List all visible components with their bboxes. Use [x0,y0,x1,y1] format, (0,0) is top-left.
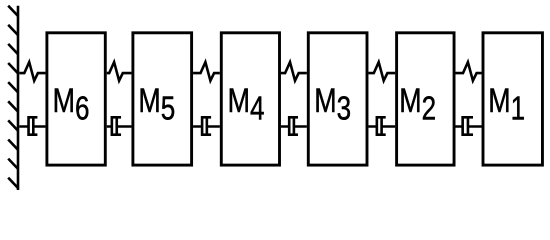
spring k6 (wall to M6) [19,62,45,81]
label M1 [488,82,525,127]
label M6 [53,82,90,127]
damper c6 (wall to M6) [19,116,45,135]
mass M1 box [483,33,542,165]
fixed wall [8,6,18,190]
damper c2 (M3 to M2) [368,116,395,135]
label M3 [314,82,351,127]
label M2 [399,82,436,127]
mass M6 box [47,33,105,165]
damper c3 (M4 to M3) [281,116,307,135]
spring k2 (M3 to M2) [368,62,395,81]
label M5 [138,82,175,127]
spring k1 (M2 to M1) [456,62,482,81]
mass M2 box [397,33,454,165]
mass M3 box [308,33,367,165]
mass M5 box [133,33,192,165]
damper c4 (M5 to M4) [193,116,220,135]
spring k3 (M4 to M3) [281,62,307,81]
mass M4 box [221,33,279,165]
spring k5 (M6 to M5) [107,62,132,81]
spring k4 (M5 to M4) [193,62,220,81]
damper c5 (M6 to M5) [107,116,132,135]
label M4 [228,82,265,127]
damper c1 (M2 to M1) [456,116,482,135]
